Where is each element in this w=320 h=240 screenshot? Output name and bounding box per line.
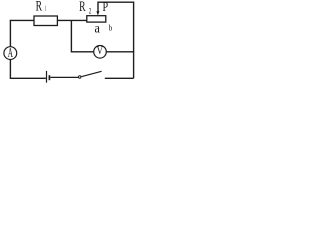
svg-text:A: A [8, 45, 13, 60]
svg-text:R: R [36, 0, 43, 15]
svg-text:P: P [103, 0, 109, 14]
svg-text:2: 2 [89, 6, 92, 15]
svg-text:V: V [97, 43, 104, 57]
svg-text:a: a [95, 22, 101, 37]
svg-text:1: 1 [45, 4, 47, 13]
svg-text:b: b [109, 24, 113, 33]
svg-text:R: R [79, 0, 86, 15]
